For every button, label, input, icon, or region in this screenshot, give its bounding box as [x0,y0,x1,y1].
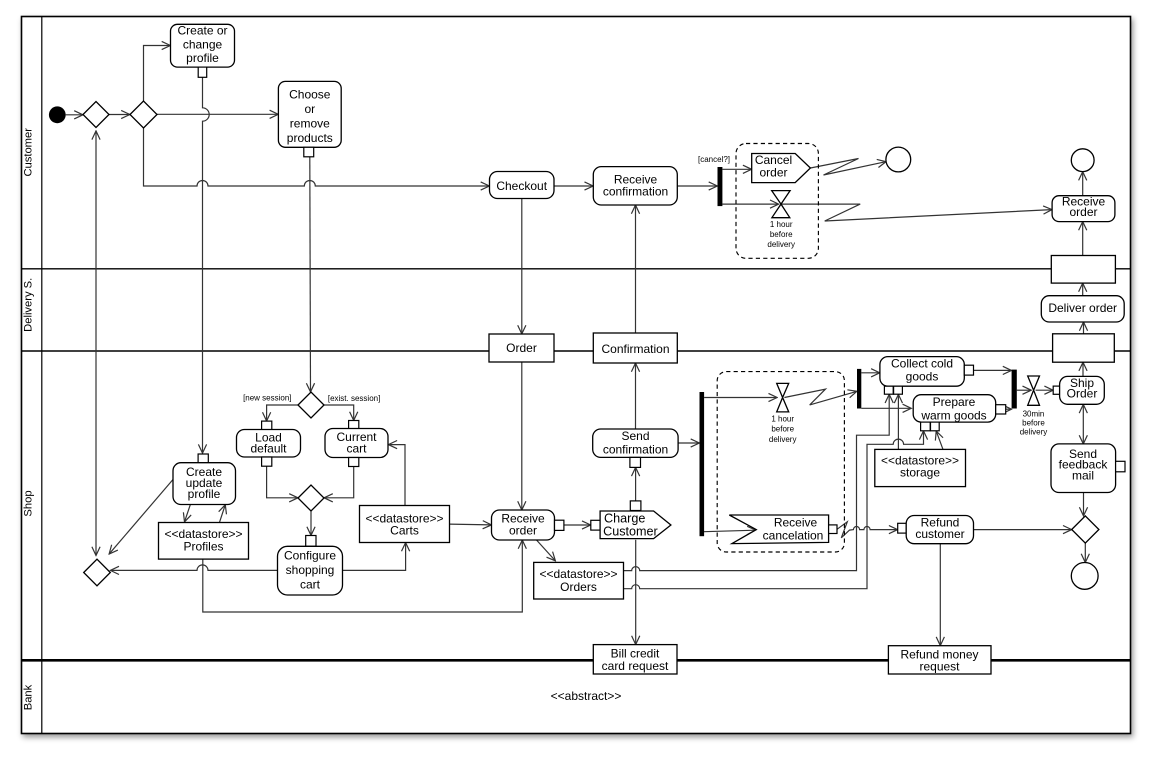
svg-text:Delivery S.: Delivery S. [22,278,34,332]
svg-text:Order: Order [506,341,537,355]
svg-text:confirmation: confirmation [603,442,668,456]
svg-text:Order: Order [1067,387,1098,401]
svg-text:before: before [770,230,793,239]
svg-text:Receive: Receive [774,515,818,529]
svg-text:Customer: Customer [603,525,658,539]
svg-text:confirmation: confirmation [603,185,668,199]
svg-text:[exist. session]: [exist. session] [328,394,380,403]
svg-text:shopping: shopping [286,563,335,577]
svg-text:Deliver order: Deliver order [1048,301,1117,315]
svg-text:remove: remove [290,117,330,131]
svg-text:delivery: delivery [767,240,795,249]
svg-text:before: before [1022,419,1045,428]
svg-text:delivery: delivery [769,435,797,444]
svg-text:warm goods: warm goods [920,409,986,423]
svg-text:Customer: Customer [22,128,34,177]
svg-text:default: default [250,441,287,455]
svg-text:cart: cart [300,578,321,592]
svg-text:Collect cold: Collect cold [891,357,953,371]
svg-text:or: or [304,102,315,116]
svg-text:change: change [183,37,223,51]
svg-text:Charge: Charge [604,511,645,525]
svg-text:Confirmation: Confirmation [601,342,669,356]
svg-text:mail: mail [1072,468,1094,482]
svg-text:Send: Send [621,429,649,443]
svg-text:before: before [771,425,794,434]
svg-text:30min: 30min [1023,410,1045,419]
svg-text:order: order [1069,205,1097,219]
svg-text:products: products [287,131,333,145]
svg-text:Checkout: Checkout [496,179,547,193]
svg-text:cart: cart [346,442,367,456]
svg-text:goods: goods [906,370,939,384]
svg-text:<<abstract>>: <<abstract>> [551,689,622,703]
svg-text:profile: profile [186,51,219,65]
svg-text:Profiles: Profiles [183,540,223,554]
svg-text:Choose: Choose [289,88,331,102]
svg-text:request: request [919,660,960,674]
svg-text:Carts: Carts [390,523,419,537]
svg-text:1 hour: 1 hour [771,415,794,424]
svg-text:Create or: Create or [177,24,227,38]
svg-text:customer: customer [915,527,964,541]
svg-text:order: order [509,523,537,537]
svg-text:Prepare: Prepare [933,395,976,409]
svg-text:Shop: Shop [22,490,34,516]
svg-text:[new session]: [new session] [243,393,291,402]
svg-text:Bank: Bank [22,684,34,710]
svg-text:card request: card request [602,659,669,673]
svg-text:storage: storage [900,466,940,480]
svg-text:Orders: Orders [560,580,597,594]
svg-text:cancelation: cancelation [763,529,824,543]
svg-text:Configure: Configure [284,549,336,563]
svg-text:profile: profile [188,487,221,501]
svg-text:delivery: delivery [1020,427,1048,436]
svg-text:order: order [759,166,787,180]
svg-text:[cancel?]: [cancel?] [698,155,730,164]
svg-text:1 hour: 1 hour [770,220,793,229]
